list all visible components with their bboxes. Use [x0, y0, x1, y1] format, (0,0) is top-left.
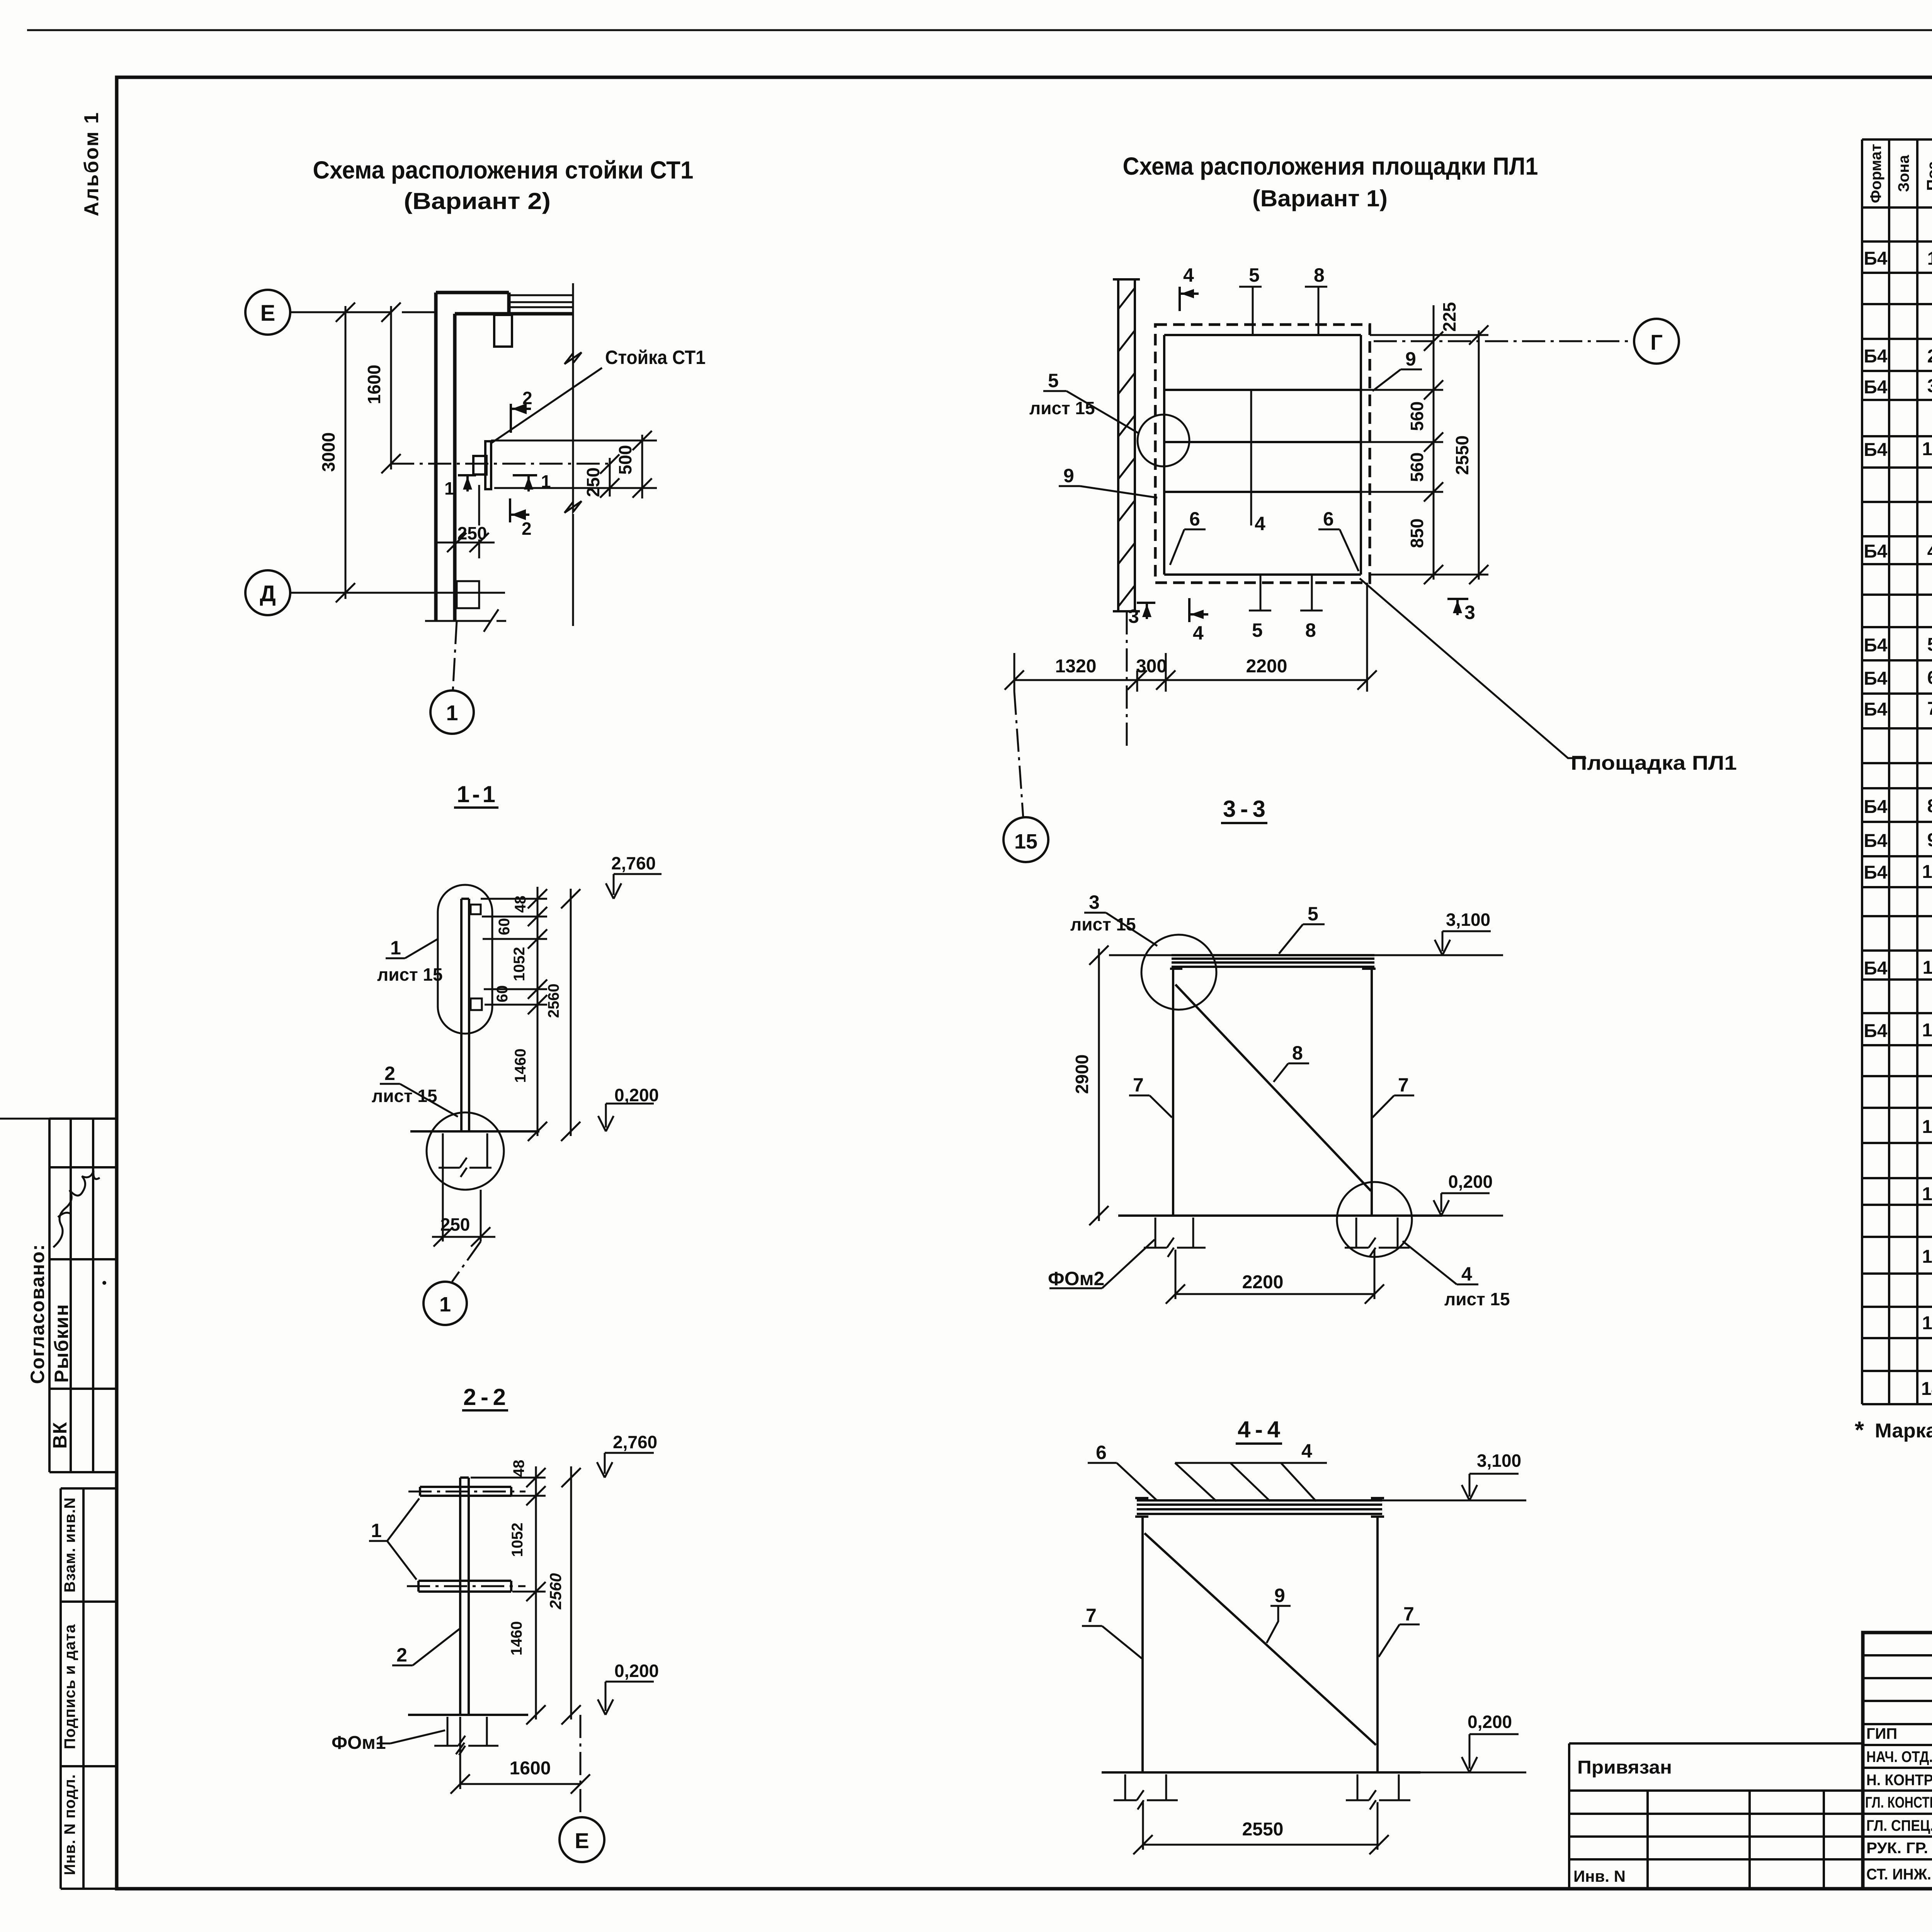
- section 3-3: diagonal brace: [1175, 985, 1371, 1191]
- attachment box Привязан: [1569, 1743, 1863, 1889]
- svg-text:Привязан: Привязан: [1577, 1757, 1672, 1778]
- svg-text:Марка бетона по морозостойк: Марка бетона по морозостойкости при мину…: [1875, 1420, 1932, 1442]
- svg-text:1: 1: [1927, 248, 1932, 269]
- svg-text:5: 5: [1249, 264, 1260, 286]
- svg-text:7: 7: [1403, 1603, 1414, 1625]
- svg-text:4: 4: [1255, 513, 1265, 534]
- section 2-2: top bar: [420, 1487, 511, 1496]
- svg-text:250: 250: [583, 468, 603, 497]
- svg-text:14: 14: [1922, 1184, 1932, 1204]
- scheme CT1: section mark 1 left: [458, 475, 476, 492]
- svg-text:2-2: 2-2: [463, 1384, 506, 1410]
- scheme PL1: axis Г line: [1374, 340, 1634, 342]
- scheme PL1: wall strip hatched: [1113, 279, 1140, 611]
- svg-text:1460: 1460: [508, 1621, 525, 1656]
- scheme CT1: leader Стойка СТ1: [491, 368, 602, 443]
- svg-text:2: 2: [1927, 346, 1932, 367]
- svg-text:ГЛ. КОНСТР.: ГЛ. КОНСТР.: [1865, 1794, 1932, 1811]
- svg-text:2: 2: [522, 388, 532, 408]
- svg-text:ГИП: ГИП: [1866, 1725, 1897, 1742]
- svg-text:6: 6: [1189, 508, 1200, 530]
- section 3-3: detail circle top left: [1141, 935, 1216, 1010]
- svg-text:5: 5: [1048, 370, 1059, 391]
- svg-text:15: 15: [1014, 830, 1037, 853]
- scheme CT1: dim line 3000: [336, 303, 355, 602]
- svg-text:3: 3: [1464, 602, 1475, 623]
- svg-text:1600: 1600: [510, 1758, 551, 1779]
- scheme PL1: dim 225: [1424, 305, 1443, 384]
- svg-text:1: 1: [439, 1293, 451, 1316]
- svg-text:1: 1: [446, 701, 458, 725]
- svg-text:3: 3: [1927, 376, 1932, 396]
- scheme CT1: section mark 2 bottom: [510, 498, 529, 522]
- svg-text:Согласовано:: Согласовано:: [27, 1243, 48, 1384]
- svg-text:ВК: ВК: [49, 1422, 71, 1449]
- title block outer: [1863, 1633, 1932, 1889]
- svg-text:1320: 1320: [1055, 656, 1097, 677]
- svg-text:1: 1: [444, 478, 454, 498]
- scheme CT1: axis D circle: [245, 570, 290, 615]
- svg-text:1: 1: [541, 471, 551, 492]
- section 3-3: left column: [1172, 969, 1174, 1216]
- scheme CT1: wall corner in plan: [436, 293, 573, 621]
- svg-text:лист 15: лист 15: [1070, 914, 1136, 934]
- svg-text:300: 300: [1136, 656, 1167, 677]
- svg-text:48: 48: [510, 1460, 527, 1477]
- svg-text:7: 7: [1133, 1074, 1144, 1096]
- scheme CT1: dim 500: [491, 431, 657, 498]
- svg-text:Инв. N подл.: Инв. N подл.: [61, 1774, 78, 1875]
- svg-text:15: 15: [1922, 1247, 1932, 1267]
- section 1-1: circle 1: [423, 1282, 467, 1325]
- svg-text:4-4: 4-4: [1238, 1417, 1281, 1442]
- svg-text:9: 9: [1927, 830, 1932, 850]
- svg-text:8: 8: [1314, 264, 1325, 286]
- scheme PL1: detail circle лист15: [1138, 415, 1189, 466]
- svg-text:Б4: Б4: [1864, 958, 1888, 979]
- scheme CT1: right break line: [565, 283, 582, 626]
- svg-text:3-3: 3-3: [1223, 796, 1265, 822]
- scheme CT1: axis line E: [290, 311, 436, 313]
- svg-text:9: 9: [1063, 465, 1074, 486]
- scheme PL1: dim 2550: [1370, 325, 1488, 584]
- svg-text:2: 2: [396, 1644, 407, 1666]
- section 2-2: axis drop to Е: [580, 1715, 582, 1816]
- svg-text:1-1: 1-1: [457, 781, 495, 807]
- section 4-4: left footing: [1114, 1774, 1178, 1810]
- section 2-2: foundation: [434, 1717, 498, 1755]
- svg-text:3,100: 3,100: [1477, 1451, 1521, 1471]
- section 4-4: left column: [1141, 1517, 1144, 1772]
- sidebar approval box: [0, 1119, 116, 1472]
- svg-text:5: 5: [1927, 634, 1932, 655]
- svg-text:Б4: Б4: [1864, 668, 1888, 689]
- specification table grid: [1862, 139, 1932, 1404]
- section 1-1: dim 2560: [561, 889, 580, 1141]
- scheme CT1: wall bottom end: [425, 609, 506, 632]
- svg-text:225: 225: [1439, 302, 1459, 332]
- section 3-3: top beam package: [1172, 955, 1374, 967]
- scheme PL1: internal beams: [1164, 390, 1361, 492]
- svg-text:Стойка СТ1: Стойка СТ1: [605, 347, 706, 368]
- scheme PL1: bottom mark 8: [1300, 575, 1323, 611]
- scheme CT1: stojka plate: [485, 441, 491, 489]
- svg-text:Б4: Б4: [1864, 440, 1888, 460]
- svg-text:2,760: 2,760: [613, 1432, 657, 1452]
- svg-text:Б4: Б4: [1864, 248, 1888, 269]
- svg-text:Д: Д: [260, 581, 276, 606]
- svg-text:Б4: Б4: [1864, 831, 1888, 851]
- svg-text:Поз.: Поз.: [1923, 157, 1932, 191]
- svg-text:Альбом 1: Альбом 1: [80, 111, 103, 216]
- scheme PL1: bottom mark 3 left: [1137, 603, 1155, 619]
- section 1-1: dim ladder 48/60/1052/60/1460: [481, 887, 547, 1141]
- svg-text:*: *: [1855, 1417, 1864, 1444]
- svg-text:Б4: Б4: [1864, 797, 1888, 817]
- section 1-1: column plates: [461, 899, 469, 1131]
- svg-text:250: 250: [440, 1214, 470, 1235]
- section 2-2: second bar: [418, 1581, 511, 1592]
- scheme CT1: lower pier: [457, 581, 479, 608]
- svg-text:Зона: Зона: [1895, 155, 1912, 192]
- svg-text:Е: Е: [575, 1828, 589, 1853]
- svg-text:60: 60: [496, 918, 513, 935]
- svg-text:Е: Е: [260, 301, 276, 326]
- scheme PL1: bottom mark 3 right: [1447, 599, 1468, 615]
- svg-text:2560: 2560: [545, 984, 562, 1018]
- scheme CT1: upper pier: [494, 315, 512, 347]
- svg-text:60: 60: [494, 985, 511, 1003]
- svg-text:2: 2: [384, 1063, 395, 1084]
- title block left thin rows: [1863, 1655, 1932, 1859]
- svg-text:Б4: Б4: [1864, 541, 1888, 562]
- section 3-3: detail circle bottom right: [1337, 1182, 1412, 1257]
- svg-text:лист 15: лист 15: [377, 964, 443, 985]
- section 4-4: right footing: [1346, 1774, 1410, 1810]
- scheme PL1: center mark line 4: [1250, 390, 1252, 526]
- svg-text:Подпись и дата: Подпись и дата: [61, 1624, 78, 1749]
- svg-text:Инв. N: Инв. N: [1573, 1867, 1626, 1885]
- svg-text:Н. КОНТР.: Н. КОНТР.: [1866, 1772, 1932, 1789]
- svg-text:850: 850: [1407, 519, 1427, 548]
- section 1-1: leader to circle 1: [452, 1242, 481, 1282]
- scheme PL1: bottom mark 5: [1249, 575, 1271, 611]
- scheme CT1: section mark 1 right: [513, 475, 537, 492]
- scheme PL1: dim column 560/560/850: [1361, 380, 1443, 584]
- section 4-4: right column: [1376, 1517, 1379, 1772]
- scheme CT1: axis 1 circle: [430, 690, 474, 734]
- scheme CT1: dim 250 vertical: [600, 454, 619, 498]
- svg-text:6: 6: [1927, 668, 1932, 688]
- svg-text:10: 10: [1922, 862, 1932, 882]
- svg-text:Б4: Б4: [1864, 1021, 1888, 1041]
- section 1-1: top tab: [471, 905, 481, 914]
- svg-text:8: 8: [1292, 1042, 1303, 1064]
- scheme CT1: dim line 1600: [381, 303, 401, 473]
- svg-text:3,100: 3,100: [1446, 910, 1490, 930]
- section 4-4: diagonal brace: [1145, 1533, 1376, 1745]
- svg-text:ФОм2: ФОм2: [1048, 1268, 1104, 1289]
- svg-text:8: 8: [1927, 796, 1932, 816]
- svg-text:(Вариант 2): (Вариант 2): [404, 188, 551, 214]
- svg-text:2: 2: [522, 519, 532, 539]
- svg-text:7: 7: [1398, 1074, 1409, 1096]
- section 2-2: base line: [408, 1714, 528, 1716]
- svg-text:1600: 1600: [364, 365, 384, 404]
- svg-text:Рыбкин: Рыбкин: [51, 1304, 72, 1383]
- section 1-1: base plate: [410, 1130, 539, 1133]
- section 4-4: base line: [1102, 1771, 1420, 1774]
- svg-text:4: 4: [1927, 541, 1932, 562]
- scheme PL1: platform dashed outline: [1155, 325, 1370, 583]
- section 2-2: circle Е: [560, 1817, 604, 1862]
- section 2-2: dim ladder 48/1052/1460: [471, 1466, 546, 1725]
- svg-text:лист 15: лист 15: [1444, 1289, 1510, 1309]
- section 3-3: left footing: [1144, 1218, 1206, 1257]
- svg-text:Г: Г: [1650, 330, 1663, 354]
- svg-text:3: 3: [1128, 605, 1139, 627]
- scheme CT1: center line through stojka: [391, 463, 611, 465]
- svg-text:6: 6: [1096, 1442, 1107, 1463]
- svg-text:НАЧ. ОТД.: НАЧ. ОТД.: [1866, 1748, 1932, 1765]
- svg-text:1: 1: [371, 1520, 382, 1541]
- svg-text:0,200: 0,200: [1468, 1712, 1512, 1732]
- svg-text:3000: 3000: [318, 432, 338, 472]
- svg-text:12: 12: [1922, 1020, 1932, 1041]
- svg-text:560: 560: [1407, 401, 1427, 431]
- svg-text:13: 13: [1922, 1117, 1932, 1137]
- svg-text:14: 14: [1922, 1313, 1932, 1333]
- svg-text:Схема расположения стойки С: Схема расположения стойки СТ1: [313, 156, 694, 184]
- section 1-1: detail capsule: [438, 885, 492, 1034]
- svg-text:Б4: Б4: [1864, 346, 1888, 367]
- svg-text:14*: 14*: [1921, 1379, 1932, 1399]
- svg-text:4: 4: [1183, 264, 1194, 286]
- svg-text:6: 6: [1323, 508, 1334, 530]
- svg-text:16: 16: [1922, 439, 1932, 459]
- svg-text:1052: 1052: [509, 1523, 526, 1557]
- svg-text:5: 5: [1252, 619, 1263, 641]
- svg-text:1052: 1052: [511, 947, 528, 981]
- scheme CT1: beams top right: [509, 295, 573, 307]
- svg-text:0,200: 0,200: [614, 1085, 659, 1105]
- svg-text:8: 8: [1305, 619, 1316, 641]
- section 3-3: base line: [1118, 1214, 1442, 1217]
- svg-text:2900: 2900: [1072, 1054, 1092, 1094]
- svg-text:9: 9: [1274, 1585, 1285, 1606]
- svg-text:Б4: Б4: [1864, 699, 1888, 720]
- scheme PL1: bottom dims 1320 300 2200: [1005, 583, 1377, 692]
- section 4-4: top beam package: [1137, 1500, 1382, 1514]
- svg-text:4: 4: [1301, 1440, 1312, 1462]
- scheme PL1: platform solid frame: [1164, 335, 1361, 575]
- svg-text:560: 560: [1407, 452, 1427, 482]
- svg-text:5: 5: [1308, 903, 1318, 925]
- svg-text:ГЛ. СПЕЦ.: ГЛ. СПЕЦ.: [1866, 1817, 1932, 1834]
- svg-text:2560: 2560: [546, 1573, 565, 1609]
- svg-text:4: 4: [1193, 622, 1204, 644]
- section 1-1: detail circle bottom: [427, 1112, 504, 1190]
- section 3-3: dim 2900: [1089, 946, 1172, 1225]
- svg-text:9: 9: [1405, 348, 1416, 370]
- scheme PL1: bottom section mark 4: [1189, 598, 1208, 622]
- scheme CT1: axis 1 dash line: [453, 621, 457, 690]
- svg-text:2200: 2200: [1242, 1272, 1284, 1293]
- scheme CT1: axis line D: [290, 592, 505, 594]
- svg-text:Формат: Формат: [1867, 144, 1884, 203]
- scheme CT1: axis E circle: [245, 290, 290, 335]
- svg-text:2550: 2550: [1242, 1819, 1284, 1840]
- svg-text:Площадка ПЛ1: Площадка ПЛ1: [1571, 752, 1737, 774]
- svg-text:2550: 2550: [1452, 435, 1472, 475]
- scheme PL1: label Площадка ПЛ1: [1360, 578, 1586, 758]
- section 3-3: right column: [1371, 969, 1373, 1216]
- svg-text:2200: 2200: [1246, 656, 1287, 677]
- svg-text:0,200: 0,200: [614, 1661, 659, 1681]
- svg-text:48: 48: [512, 896, 529, 913]
- svg-text:1: 1: [390, 937, 401, 959]
- svg-text:3: 3: [1089, 891, 1100, 913]
- svg-text:500: 500: [615, 445, 635, 475]
- signature Рыбкина (squiggle): [53, 1171, 100, 1247]
- svg-text:(Вариант 1): (Вариант 1): [1252, 185, 1388, 211]
- section 2-2: column: [460, 1478, 469, 1715]
- svg-text:7: 7: [1927, 699, 1932, 719]
- section 2-2: dim 2560: [561, 1466, 581, 1725]
- svg-text:Б4: Б4: [1864, 635, 1888, 656]
- section 1-1: mid tab: [471, 998, 482, 1010]
- svg-text:4: 4: [1461, 1263, 1472, 1285]
- scheme PL1: wall axis dash: [1126, 611, 1128, 746]
- scheme CT1: section mark 2 top: [511, 404, 531, 433]
- svg-text:РУК. ГР.: РУК. ГР.: [1866, 1840, 1928, 1857]
- svg-text:Схема расположения площадки: Схема расположения площадки ПЛ1: [1123, 152, 1538, 180]
- svg-text:11: 11: [1923, 957, 1932, 978]
- svg-text:1460: 1460: [512, 1049, 529, 1083]
- section 1-1: foundation legs: [439, 1133, 492, 1177]
- svg-text:Взам. инв.N: Взам. инв.N: [61, 1497, 78, 1593]
- svg-text:0,200: 0,200: [1448, 1172, 1493, 1192]
- svg-text:Б4: Б4: [1864, 377, 1888, 398]
- svg-text:лист 15: лист 15: [372, 1086, 437, 1106]
- sidebar inventory box: [61, 1488, 116, 1889]
- svg-text:СТ. ИНЖ.: СТ. ИНЖ.: [1866, 1866, 1931, 1883]
- section 3-3: right footing: [1345, 1218, 1410, 1257]
- scheme CT1: stojka bolt: [473, 456, 486, 474]
- scheme PL1: axis 15 circle: [1003, 817, 1048, 862]
- scheme PL1: axis Г circle: [1634, 319, 1679, 364]
- svg-text:2,760: 2,760: [611, 853, 656, 873]
- svg-text:Б4: Б4: [1864, 862, 1888, 883]
- svg-text:7: 7: [1086, 1605, 1097, 1626]
